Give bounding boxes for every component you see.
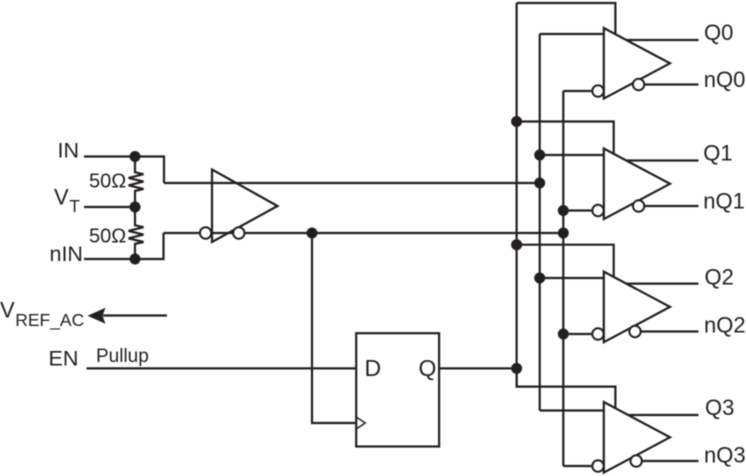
node nIN junction [130,254,141,265]
resistor R1 [129,157,144,208]
svg-text:Q0: Q0 [704,20,733,45]
wire buffer2 bubble input [563,333,592,335]
buffer U5 input bubble [592,328,603,339]
svg-text:Q1: Q1 [703,141,732,166]
wire nQ0 output [644,83,698,85]
wire VT [84,206,135,208]
receiver inverted output bubble [233,227,244,238]
wire EN to D input [87,367,357,369]
wire Q2 output [626,283,698,285]
wire nIN to receiver inverting input [84,233,164,259]
svg-text:Pullup: Pullup [96,346,149,367]
receiver inverting input bubble [200,227,211,238]
D flip-flop U2 [356,333,439,446]
output buffer U4 (Q1) [604,149,670,220]
svg-text:50Ω: 50Ω [89,171,126,193]
node rail A to buffer2 [511,239,522,250]
node VT junction [130,202,141,213]
buffer U5 nQ2 output bubble [629,326,640,337]
rail B true clock [539,34,541,411]
wire buffer3 top input [540,409,604,411]
wire FF Q output to rail A [439,367,516,369]
wire true clock line (through receiver to rail B) [164,182,540,184]
node IN/R1 junction [130,151,141,162]
buffer U4 nQ1 output bubble [633,200,644,211]
svg-text:Q: Q [419,355,437,381]
resistor R2 [129,207,144,259]
node rail B receiver junction [534,178,545,189]
wire enable route to buffer3 [517,368,616,408]
node rail B to buffer2 [534,273,545,284]
svg-text:nIN: nIN [50,242,83,266]
wire nQ2 output [641,330,699,332]
svg-text:Q2: Q2 [705,264,734,289]
wire buffer1 top input [540,154,604,156]
wire Q1 output [626,159,698,161]
wire complement clock line (through receiver to rail C) [164,232,564,234]
wire buffer0 bubble input [563,90,592,92]
wire buffer1 bubble input [563,209,592,211]
buffer U3 nQ0 output bubble [633,79,644,90]
buffer U6 input bubble [592,460,603,471]
svg-text:nQ2: nQ2 [704,312,746,337]
buffer U4 input bubble [592,205,603,216]
node rail B to buffer1 [534,150,545,161]
buffer U6 nQ3 output bubble [631,455,642,466]
wire IN to receiver top input [84,157,164,184]
svg-text:IN: IN [58,139,80,163]
op-amp receiver U1 [212,170,278,243]
buffer U3 input bubble [592,85,603,96]
node rail C to buffer2 [558,329,569,340]
rail C complement clock [562,91,564,466]
node rail C to buffer1 [558,205,569,216]
output buffer U5 (Q2) [604,272,670,343]
svg-text:D: D [365,355,382,381]
svg-text:nQ3: nQ3 [704,443,746,468]
svg-text:nQ1: nQ1 [703,188,745,213]
output buffer U3 (Q0) [604,28,670,99]
rail A enable [515,3,517,387]
wire complement to FF clock [312,233,356,423]
wire enable route to buffer0 [517,3,616,35]
svg-text:nQ0: nQ0 [704,67,746,92]
svg-text:Q3: Q3 [705,395,734,420]
wire Q3 output [628,414,698,416]
svg-text:EN: EN [49,347,79,371]
wire nQ1 output [644,205,698,207]
wire buffer2 top input [540,277,604,279]
wire buffer0 top input [540,33,604,35]
wire Q0 output [626,39,698,41]
wire nQ3 output [642,460,699,462]
FF clock caret [356,417,365,429]
svg-text:50Ω: 50Ω [89,226,126,248]
wire enable route to buffer2 [517,245,614,278]
output buffer U6 (Q3) [604,402,670,473]
node complement line end [558,228,569,239]
wire buffer3 bubble input [563,465,592,467]
wire enable route to buffer1 [517,122,614,155]
node rail A to buffer1 [511,116,522,127]
VREF_AC arrow [88,308,168,324]
node Q/rail A junction [511,363,522,374]
node complement to clock branch [307,228,318,239]
